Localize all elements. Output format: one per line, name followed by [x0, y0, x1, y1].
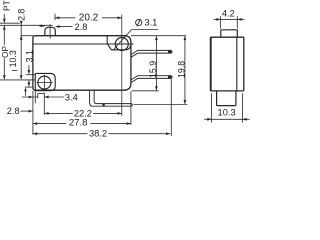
body top extension to left — [21, 35, 33, 37]
side body left edge emphasis — [210, 38, 212, 91]
free position reference line — [0, 22, 20, 24]
boss left extension line — [34, 91, 36, 103]
22.2 arrow left — [44, 112, 48, 115]
PT arrow down — [3, 19, 6, 23]
27.8 arrow left — [33, 122, 37, 125]
side body — [210, 37, 243, 91]
3.4 arrow right — [29, 96, 33, 99]
side button — [221, 30, 238, 37]
plunger center line — [49, 24, 51, 38]
svg-text:PT: PT — [1, 0, 11, 11]
body left extension line — [32, 91, 34, 135]
dim 2.8 plunger right tail — [56, 26, 73, 28]
dim 22.2 line — [44, 112, 73, 114]
terminal top hole — [168, 50, 171, 53]
body top extension to right — [131, 35, 186, 37]
boss top-right inner outline — [107, 36, 131, 50]
dim 10.3 extension lines — [211, 93, 213, 122]
svg-text:2.8: 2.8 — [75, 22, 88, 32]
4.2 arrow right — [216, 18, 220, 21]
dim line 2.8/10.3 left — [20, 23, 22, 79]
3.1 arrow up — [28, 80, 31, 84]
dim 3.4 left tail — [22, 96, 38, 98]
19.8 arrow up — [184, 36, 187, 40]
plunger — [45, 27, 55, 36]
dim 3.4 right tail — [44, 96, 64, 98]
hole center extension line bottom-left — [43, 93, 45, 115]
2.8 plunger arrow left — [55, 25, 59, 28]
hole plane reference line — [0, 79, 35, 81]
10.3 arrow right — [207, 118, 211, 121]
hole top-right — [115, 38, 128, 51]
10.3 arrow down — [20, 75, 23, 79]
svg-text:27.8: 27.8 — [69, 118, 88, 129]
svg-text:4.2: 4.2 — [222, 8, 235, 18]
small reference line above body bottom — [25, 86, 33, 88]
hole bottom-left horizontal center line — [37, 82, 53, 84]
bottom terminal top extension line — [134, 104, 188, 106]
terminal bottom L-lug — [90, 90, 133, 106]
dim 2.8 bottom tail — [21, 110, 33, 112]
3.4 arrow left — [44, 96, 48, 99]
svg-text:15.9: 15.9 — [148, 61, 158, 78]
dim 20.2 line — [55, 17, 75, 19]
small arrow up at x25.5 — [24, 87, 27, 91]
15.9 arrow down — [155, 86, 158, 90]
OP dimension line — [3, 59, 5, 80]
22.2 arrow right — [118, 112, 122, 115]
dimension texts — [0, 0, 186, 138]
small up-arrow leader at x25.5 — [25, 89, 27, 96]
svg-text:10.3: 10.3 — [8, 50, 18, 67]
body right extension line — [130, 92, 132, 126]
middle terminal end extension line — [170, 79, 172, 136]
svg-text:2.8: 2.8 — [16, 9, 26, 21]
switch body outline — [33, 36, 131, 90]
dim 15.9 line — [155, 36, 157, 90]
hole bottom-left vertical center line — [43, 75, 45, 91]
dim 27.8 line — [33, 123, 66, 125]
svg-text:3.1: 3.1 — [24, 50, 34, 62]
body seam line through hole center — [33, 43, 133, 45]
terminal middle lug — [131, 76, 172, 83]
27.8 arrow right — [127, 122, 131, 125]
20.2 arrow left — [55, 16, 59, 19]
terminal bottom hole — [102, 104, 105, 107]
38.2 arrow left — [33, 132, 37, 135]
boss bottom-left outline — [35, 73, 55, 90]
PT dimension line — [3, 14, 5, 23]
svg-text:19.8: 19.8 — [176, 61, 186, 78]
2.8 plunger arrow right — [41, 25, 45, 28]
dim 4.2 line — [214, 18, 245, 20]
hole center extension line long — [121, 15, 123, 116]
side base — [217, 91, 236, 106]
2.8 left arrow down — [20, 21, 23, 25]
15.9 arrow up — [155, 36, 158, 40]
terminal top lug — [131, 50, 172, 57]
dim 2.8 plunger left tail — [39, 25, 44, 27]
20.2 arrow right — [118, 16, 122, 19]
dim 10.3 line — [204, 118, 249, 120]
19.8 arrow down — [184, 100, 187, 104]
svg-text:10.3: 10.3 — [218, 108, 236, 118]
10.3 text dash — [12, 70, 17, 72]
boss top extension line — [26, 74, 36, 76]
OP arrow down — [3, 75, 6, 79]
body bottom extension to right — [132, 90, 159, 92]
2.8 bottom arrow right — [29, 110, 33, 113]
dim 19.8 line — [184, 36, 186, 104]
phi symbol circle — [136, 20, 142, 26]
2.8 left arrow up — [20, 36, 23, 40]
dim 4.2 extension lines — [220, 16, 222, 28]
svg-text:3.1: 3.1 — [144, 18, 157, 28]
svg-text:38.2: 38.2 — [89, 129, 107, 139]
4.2 arrow left — [237, 18, 241, 21]
svg-text:3.4: 3.4 — [65, 93, 78, 103]
3.1 dimension line — [28, 65, 30, 74]
leader line for hole diameter — [113, 30, 132, 51]
short connector at y93.4 — [38, 92, 45, 94]
side inner edge line — [236, 37, 238, 91]
10.3 arrow left — [243, 118, 247, 121]
arrowheads — [3, 16, 186, 135]
short extension at x37.8 — [37, 93, 39, 98]
PT arrow up — [3, 26, 6, 30]
svg-text:2.8: 2.8 — [7, 106, 20, 116]
terminal middle hole — [168, 75, 171, 78]
38.2 arrow right — [166, 132, 170, 135]
dim 38.2 line — [33, 133, 88, 135]
operating reference line — [0, 24, 53, 26]
dim 20.2 extension at plunger — [54, 14, 56, 20]
hole bottom-left — [38, 76, 51, 89]
3.1 arrow down — [28, 70, 31, 74]
